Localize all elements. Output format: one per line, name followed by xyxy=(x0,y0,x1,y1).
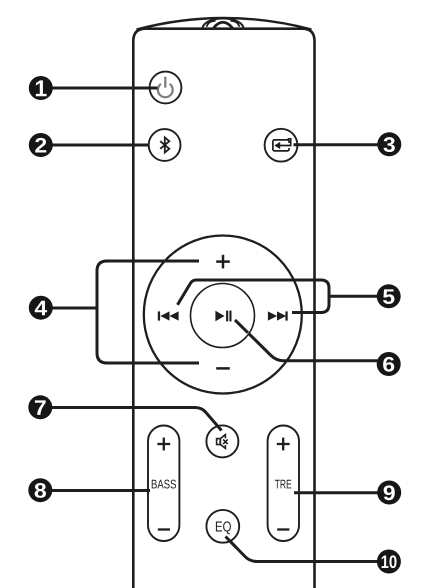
play/pause button xyxy=(191,284,255,348)
leader line 10 overlay xyxy=(226,537,237,548)
leader line 4 xyxy=(52,307,97,310)
callout badge 1 xyxy=(29,76,53,100)
IR lens dome xyxy=(203,19,244,29)
callout 4 bracket xyxy=(97,261,199,363)
EQ button xyxy=(206,510,239,543)
callout badge 3 xyxy=(377,132,401,156)
mute button xyxy=(206,425,238,457)
callout badge 2 xyxy=(29,133,53,157)
leader line 6 overlay (start over circle) xyxy=(235,320,248,333)
leader line 5 xyxy=(329,295,378,298)
callout badge 5 xyxy=(377,284,401,308)
bass button xyxy=(148,426,179,542)
skip forward button xyxy=(268,311,288,320)
power button xyxy=(150,72,182,104)
leader line 1 xyxy=(52,87,158,90)
callout badge 8 xyxy=(28,478,52,502)
leader line 8 xyxy=(52,489,150,492)
callout badge 9 xyxy=(377,481,401,505)
skip back button xyxy=(158,311,179,320)
callout 5 bracket xyxy=(178,280,330,313)
bluetooth button xyxy=(149,129,181,161)
leader line 6 xyxy=(235,320,378,361)
leader line 2 xyxy=(52,144,149,147)
leader line 7 xyxy=(52,408,222,431)
treble button xyxy=(268,426,299,542)
callout badge 7 xyxy=(28,395,52,419)
leader line 9 xyxy=(294,491,378,494)
callout badge 4 xyxy=(29,296,53,320)
callout badge 6 xyxy=(377,352,401,376)
callout badge 10 xyxy=(377,550,401,574)
leader line 3 xyxy=(294,143,379,146)
leader line 10 xyxy=(226,537,378,562)
remote top profile arc xyxy=(137,18,312,30)
navigation pad ring xyxy=(144,236,302,394)
remote body xyxy=(133,29,314,588)
volume minus xyxy=(216,367,230,370)
input select button xyxy=(265,129,298,162)
volume plus xyxy=(216,255,230,269)
